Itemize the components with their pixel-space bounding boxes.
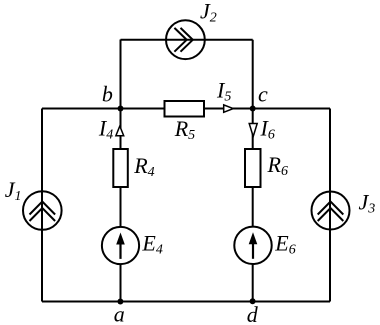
svg-text:a: a xyxy=(114,302,125,325)
svg-text:d: d xyxy=(247,302,259,325)
svg-text:b: b xyxy=(102,82,113,107)
svg-text:c: c xyxy=(258,81,268,106)
